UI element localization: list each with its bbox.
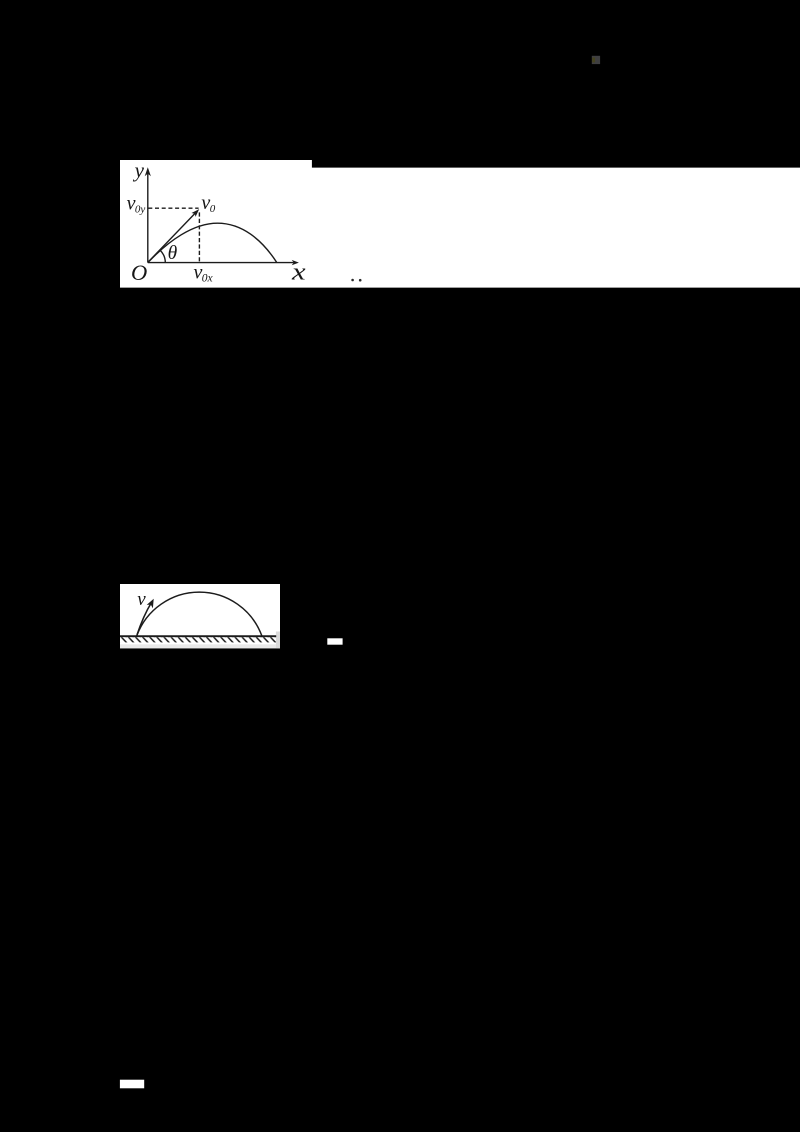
angle arc theta	[160, 250, 165, 263]
figure 2: light gray strip right edge	[276, 632, 280, 649]
figure 2: v arrow shaft (curved)	[137, 603, 151, 635]
figure 2: ground line	[120, 635, 276, 637]
v0 vector arrow shaft	[148, 213, 195, 262]
white band containing figure 1 (steps down at x=312)	[120, 160, 800, 288]
figure 2: v arrowhead	[147, 599, 154, 609]
white bar bottom left	[120, 1080, 144, 1089]
figure 2: dome trajectory arc	[137, 592, 262, 636]
y-axis arrowhead	[145, 167, 151, 176]
figure 2: white box	[120, 584, 280, 648]
v0 arrowhead	[192, 209, 200, 217]
svg-text:v: v	[137, 589, 146, 610]
x-axis arrowhead	[292, 260, 299, 265]
figure 1 labels	[127, 158, 306, 286]
figure 2: light gray strip below hatching	[120, 644, 280, 648]
olive mark inside gray square	[592, 58, 595, 63]
svg-text:θ: θ	[168, 243, 178, 264]
figure 1: projectile trajectory with axes	[148, 173, 294, 263]
small white dash right of figure 2	[327, 638, 342, 644]
dashed horizontal line v0y	[148, 207, 198, 209]
y-axis	[147, 173, 149, 263]
dashed vertical line v0x	[198, 212, 200, 261]
svg-text:y: y	[133, 158, 145, 182]
svg-text:O: O	[131, 260, 147, 285]
small gray square icon top right	[592, 56, 600, 64]
x-axis	[148, 262, 294, 264]
two tiny dots below band	[351, 279, 354, 282]
trajectory parabola	[148, 223, 276, 262]
svg-text:x: x	[291, 260, 306, 286]
figure 2: hatched ground fill	[120, 637, 276, 642]
